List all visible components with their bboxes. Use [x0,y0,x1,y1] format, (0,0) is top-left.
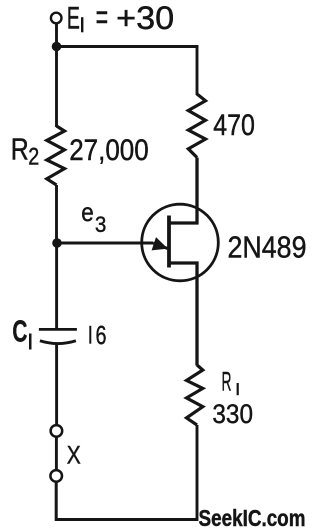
svg-text:C: C [12,314,27,349]
svg-text:e: e [81,197,94,227]
label E1 = +30 [67,0,174,37]
wire: left vertical middle (R2 to node) [55,185,58,243]
base-2 lead (top) [169,158,197,224]
base bar [167,216,171,268]
wire: between X terminals [55,437,58,470]
emitter diagonal [153,243,168,249]
junction dot (node e3) [52,238,62,248]
wire: bottom left vertical and bottom horizontal [56,482,197,520]
base-1 lead (bottom) [169,263,197,366]
wire: right vertical (top corner to 470) [196,45,199,95]
svg-text:3: 3 [95,212,107,237]
capacitor C1 bottom plate (curved) [40,341,76,344]
svg-text:=: = [96,0,109,37]
junction dot (top node) [52,42,62,52]
wire: top horizontal [57,45,199,48]
capacitor C1 top plate [39,328,77,331]
svg-text:6: 6 [96,322,107,350]
svg-text:+30: +30 [116,0,174,36]
svg-text:27,000: 27,000 [69,134,149,167]
value 16 [89,326,91,344]
svg-text:330: 330 [212,399,253,429]
wire: capacitor to X terminal [55,344,58,425]
svg-text:2: 2 [28,143,39,170]
emitter arrowhead [152,237,168,250]
resistor R1 zigzag [187,365,203,425]
svg-text:E: E [67,0,80,36]
wire: bottom right vertical (R1 to bottom wire) [196,425,199,521]
svg-text:SeekIC.com: SeekIC.com [199,505,306,531]
svg-text:R: R [222,366,232,396]
svg-text:470: 470 [213,109,255,142]
wire: left vertical upper (terminal to R2) [55,23,58,127]
svg-text:X: X [67,441,81,469]
terminal X lower (open circle) [50,470,62,482]
resistor 470 zigzag [188,94,205,158]
resistor R2 zigzag [47,126,65,185]
svg-text:2N489: 2N489 [228,230,307,264]
terminal X upper (open circle) [51,425,63,437]
terminal E1 (open circle) [51,13,62,24]
circle [142,204,219,281]
wire: left vertical (node to capacitor) [55,243,58,329]
svg-text:R: R [11,132,29,167]
transistor Q1 2N489 (UJT) [142,158,219,366]
wire: emitter horizontal [57,242,153,245]
